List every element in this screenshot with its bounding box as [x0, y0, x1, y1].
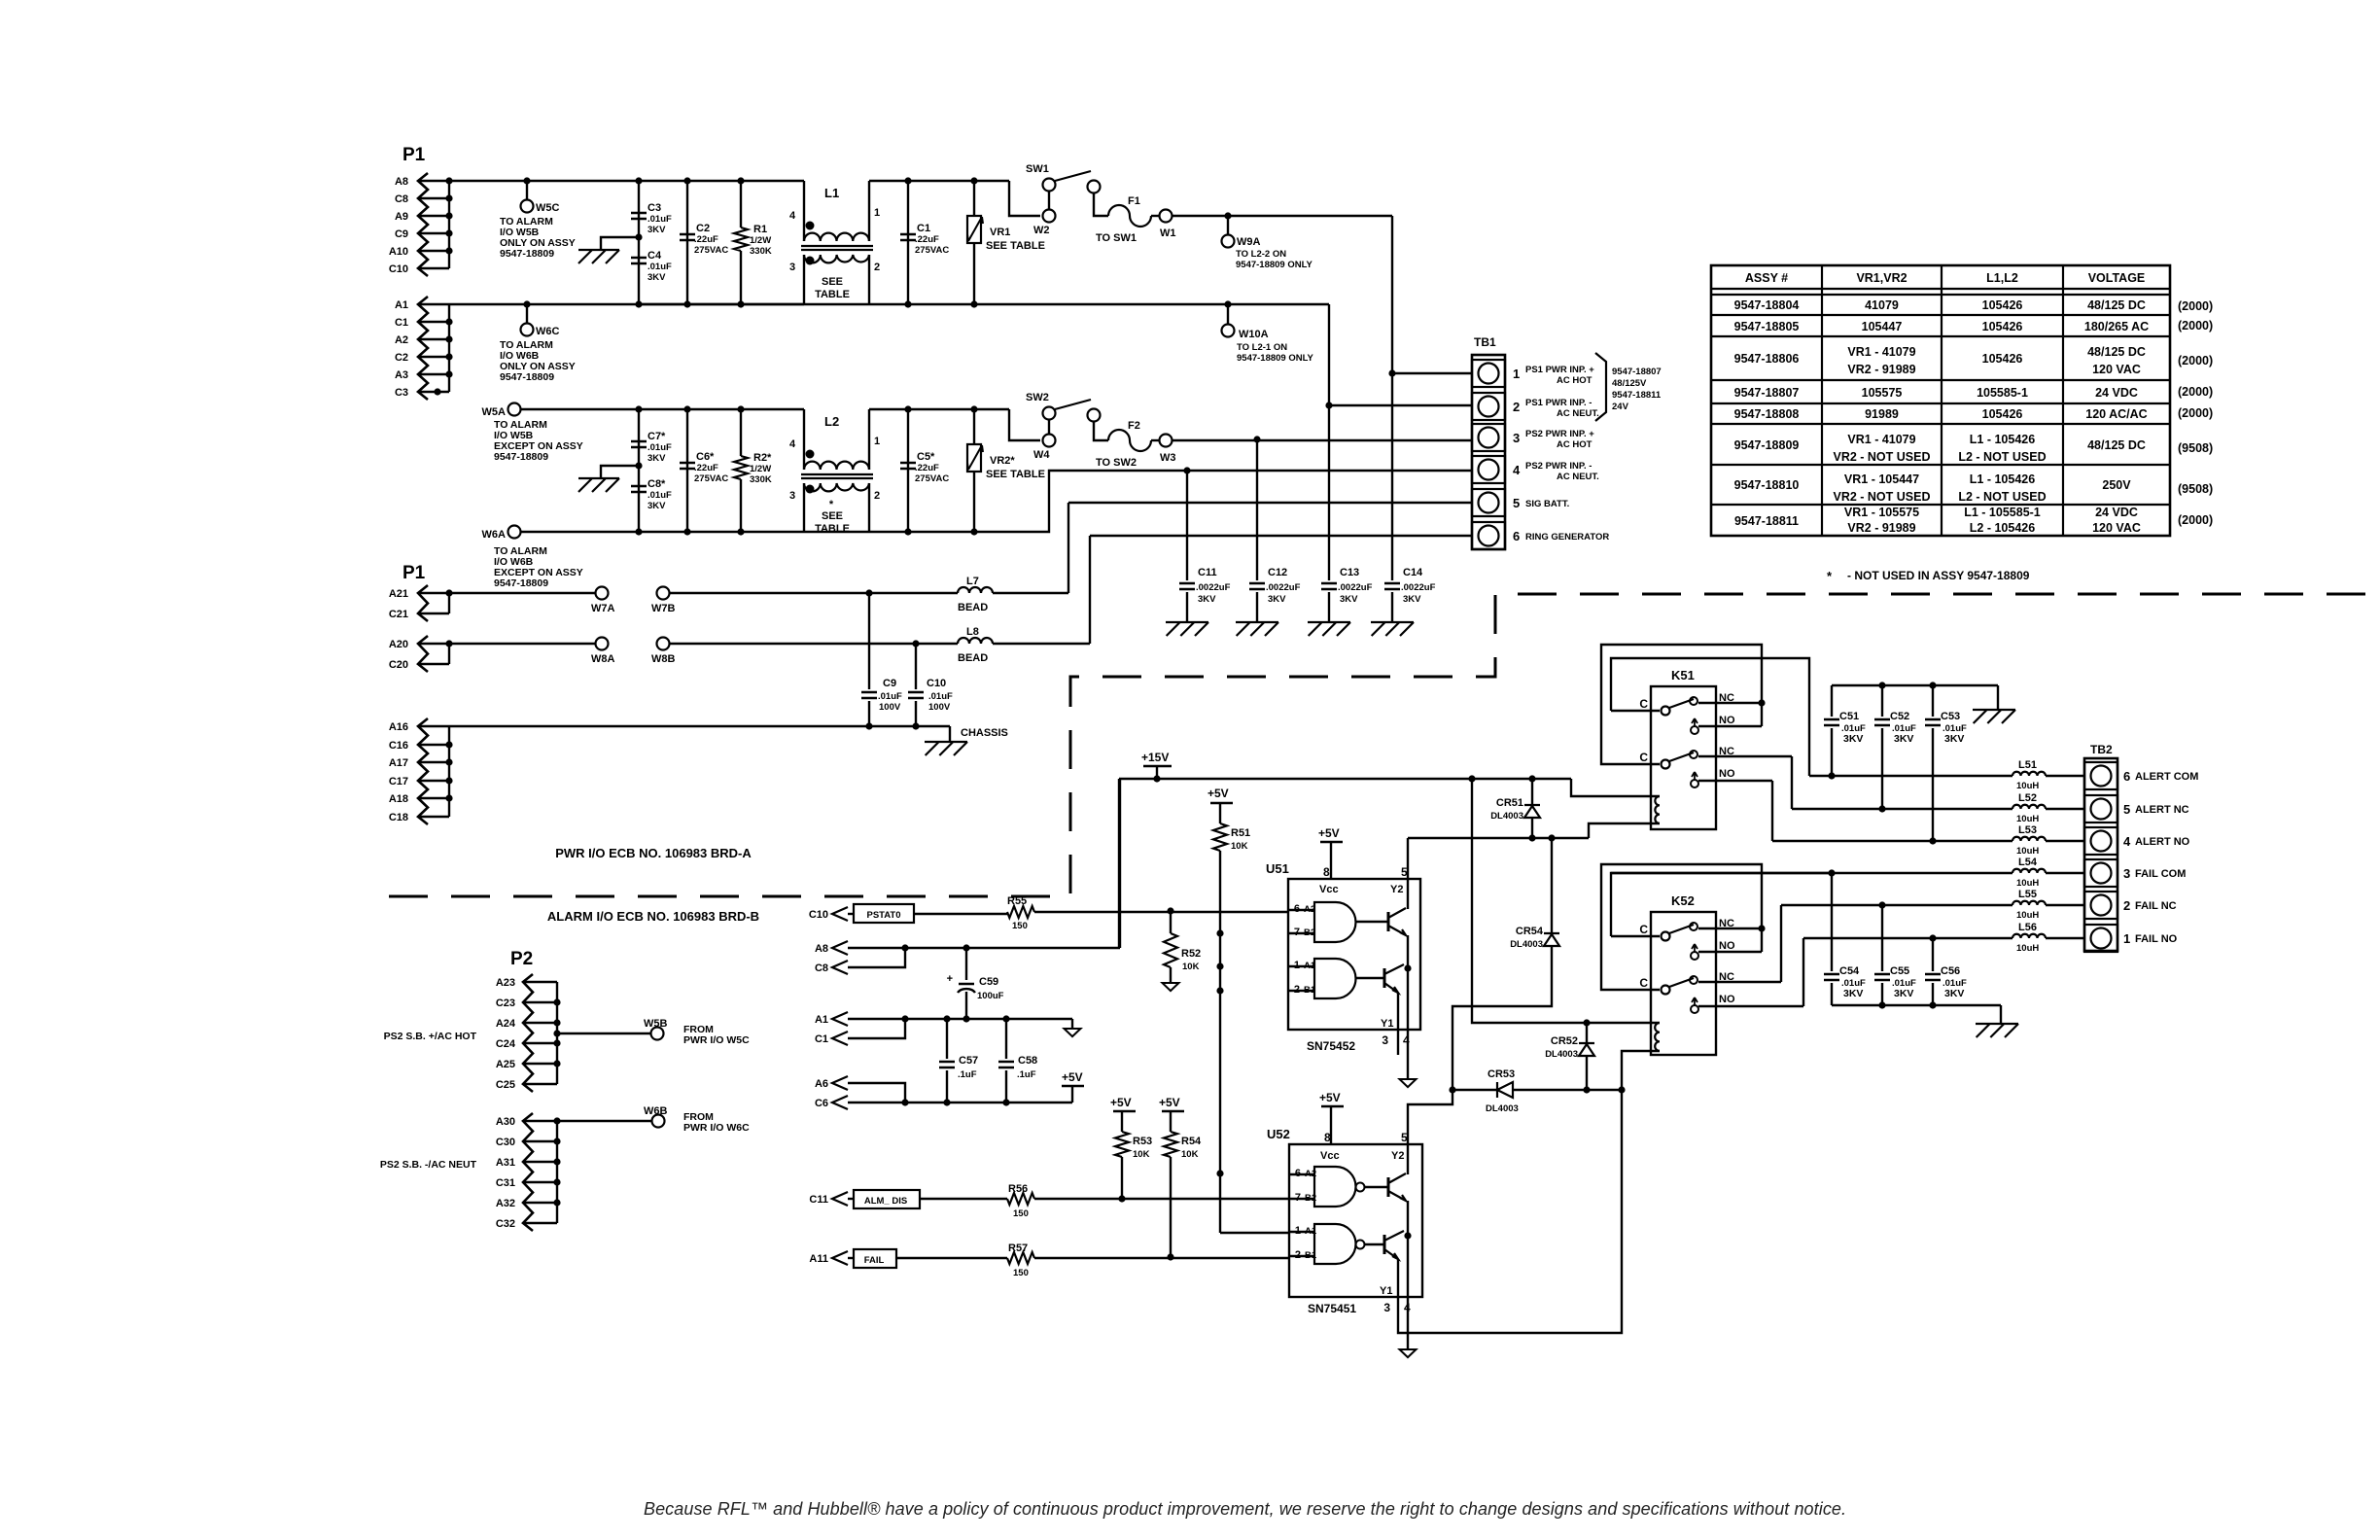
capacitor C3: [638, 181, 640, 304]
svg-text:SW1: SW1: [1026, 163, 1049, 175]
svg-text:330K: 330K: [750, 474, 772, 485]
svg-text:9547-18811: 9547-18811: [1734, 514, 1799, 528]
svg-text:41079: 41079: [1865, 298, 1899, 312]
svg-text:24V: 24V: [1612, 402, 1629, 412]
svg-text:K51: K51: [1671, 668, 1695, 682]
svg-text:5: 5: [2123, 802, 2130, 817]
svg-text:FAIL: FAIL: [864, 1255, 885, 1266]
svg-text:.22uF: .22uF: [694, 463, 718, 473]
K52 pole1 NC contact: [1690, 923, 1697, 930]
svg-text:L1 - 105426: L1 - 105426: [1970, 433, 2035, 446]
svg-text:R1: R1: [753, 224, 767, 235]
jumper W6C: [523, 300, 530, 307]
svg-text:C8: C8: [395, 193, 408, 205]
svg-text:Y1: Y1: [1380, 1285, 1392, 1297]
svg-text:120 AC/AC: 120 AC/AC: [2085, 407, 2147, 421]
wire A1 rail (filter1 bottom): [418, 303, 804, 305]
svg-text:C10: C10: [927, 678, 946, 689]
svg-text:SW2: SW2: [1026, 392, 1049, 403]
svg-text:C8*: C8*: [647, 478, 666, 490]
svg-text:VR1 - 41079: VR1 - 41079: [1847, 345, 1915, 359]
svg-text:L1 - 105585-1: L1 - 105585-1: [1964, 506, 2041, 519]
svg-text:100uF: 100uF: [977, 991, 1004, 1001]
svg-text:P1: P1: [402, 145, 426, 165]
svg-text:VR2*: VR2*: [990, 455, 1015, 467]
svg-text:PWR I/O ECB NO. 106983 BRD-A: PWR I/O ECB NO. 106983 BRD-A: [555, 846, 752, 860]
svg-text:C2: C2: [395, 352, 408, 364]
svg-text:W5A: W5A: [482, 406, 507, 418]
svg-text:R56: R56: [1008, 1183, 1028, 1195]
svg-text:10uH: 10uH: [2016, 781, 2039, 791]
varistor VR1: [973, 181, 975, 216]
svg-text:C1: C1: [395, 317, 408, 329]
wire PSTAT0 to R55: [914, 913, 1007, 915]
svg-text:NO: NO: [1719, 994, 1735, 1005]
svg-text:L2 - NOT USED: L2 - NOT USED: [1958, 450, 2046, 464]
wire K51 pole1 C to ALERT COM row: [1611, 658, 1809, 776]
svg-text:3KV: 3KV: [647, 453, 666, 464]
capacitor C8*: [631, 486, 647, 492]
wire W3 to TB1-3: [1172, 439, 1472, 441]
jumper W5C: [523, 177, 530, 184]
jumper W3: [1160, 435, 1172, 447]
svg-text:NO: NO: [1719, 940, 1735, 952]
svg-text:.01uF: .01uF: [647, 262, 672, 272]
svg-text:+5V: +5V: [1319, 1091, 1341, 1104]
wire to W5B: [553, 1030, 560, 1036]
svg-text:C8: C8: [815, 962, 828, 974]
svg-text:.22uF: .22uF: [915, 463, 939, 473]
svg-text:C9: C9: [883, 678, 896, 689]
svg-text:*: *: [829, 499, 834, 510]
svg-text:9547-18807: 9547-18807: [1734, 386, 1800, 400]
svg-text:DL4003: DL4003: [1510, 939, 1543, 950]
svg-text:275VAC: 275VAC: [694, 245, 728, 256]
svg-text:A17: A17: [389, 757, 408, 769]
svg-text:A3: A3: [395, 369, 408, 381]
K52 pole2 NC contact: [1690, 976, 1697, 984]
svg-text:A20: A20: [389, 639, 408, 650]
svg-text:NO: NO: [1719, 768, 1735, 780]
svg-text:9547-18809 ONLY: 9547-18809 ONLY: [1237, 353, 1314, 364]
jumper W7B: [657, 587, 670, 600]
svg-text:9547-18809: 9547-18809: [500, 371, 554, 383]
capacitor C4: [631, 258, 647, 263]
K51 pole2 NO contact: [1691, 780, 1698, 787]
chassis ground: [601, 237, 639, 250]
svg-text:(2000): (2000): [2178, 354, 2213, 367]
capacitor C58: [1002, 1015, 1009, 1022]
svg-text:U51: U51: [1266, 861, 1289, 876]
svg-text:L2 - 105426: L2 - 105426: [1970, 521, 2035, 535]
inductor L53 10uH: [1772, 840, 2012, 842]
svg-text:Y2: Y2: [1391, 1150, 1404, 1162]
fuse F2: [1094, 421, 1108, 440]
capacitor C59: [965, 948, 967, 980]
wire filter2 bottom to TB1-4: [974, 471, 1472, 532]
svg-text:(2000): (2000): [2178, 513, 2213, 527]
wire K51 NO2 step to ALERT NO: [1771, 781, 1773, 841]
svg-text:PS2 S.B. -/AC NEUT: PS2 S.B. -/AC NEUT: [380, 1159, 477, 1171]
svg-text:10K: 10K: [1133, 1149, 1150, 1160]
wire K51 NC2 step to ALERT NC: [1791, 756, 1793, 809]
svg-text:3KV: 3KV: [1340, 594, 1358, 605]
svg-text:VR1 - 41079: VR1 - 41079: [1847, 433, 1915, 446]
svg-text:10uH: 10uH: [2016, 878, 2039, 889]
svg-text:C: C: [1639, 697, 1648, 711]
svg-text:1: 1: [874, 207, 880, 219]
svg-text:100V: 100V: [879, 702, 901, 713]
svg-text:DL4003: DL4003: [1490, 811, 1523, 822]
svg-text:+: +: [947, 973, 953, 985]
resistor R53: [1115, 1132, 1129, 1157]
svg-text:C55: C55: [1890, 965, 1909, 977]
svg-text:C51: C51: [1839, 711, 1859, 722]
svg-text:(9508): (9508): [2178, 441, 2213, 455]
svg-text:C13: C13: [1340, 567, 1359, 578]
+15V feed to K52 coil: [1472, 779, 1660, 1023]
svg-text:(2000): (2000): [2178, 299, 2213, 313]
wire L8 to TB1-6: [1090, 535, 1472, 537]
svg-text:TO SW2: TO SW2: [1096, 457, 1137, 469]
svg-text:(2000): (2000): [2178, 406, 2213, 420]
svg-text:A6: A6: [815, 1078, 828, 1090]
capacitor C13: [1328, 405, 1330, 580]
svg-text:SN75451: SN75451: [1308, 1302, 1356, 1315]
svg-text:SN75452: SN75452: [1307, 1039, 1355, 1053]
U51 pin3 stub: [1397, 993, 1399, 1055]
board boundary dashed line: [389, 594, 2380, 896]
capacitor C55: [1881, 905, 1883, 971]
svg-text:CR52: CR52: [1551, 1035, 1578, 1047]
svg-text:ALM_ DIS: ALM_ DIS: [864, 1196, 907, 1207]
svg-text:24 VDC: 24 VDC: [2095, 506, 2138, 519]
svg-text:C1: C1: [917, 223, 930, 234]
svg-text:.01uF: .01uF: [647, 442, 672, 453]
inductor L52 10uH: [1792, 808, 2012, 810]
varistor VR2*: [973, 409, 975, 444]
svg-text:1/2W: 1/2W: [750, 235, 771, 246]
svg-text:2: 2: [2123, 898, 2130, 913]
svg-text:PWR I/O W5C: PWR I/O W5C: [683, 1034, 750, 1046]
svg-text:L1 - 105426: L1 - 105426: [1970, 472, 2035, 486]
inductor L55 10uH: [1781, 904, 2012, 906]
svg-text:48/125V: 48/125V: [1612, 378, 1647, 389]
svg-text:L8: L8: [966, 626, 979, 638]
svg-text:FAIL NO: FAIL NO: [2135, 933, 2178, 945]
svg-text:W9A: W9A: [1237, 236, 1261, 248]
svg-text:VR2 - 91989: VR2 - 91989: [1847, 521, 1915, 535]
jumper W5B: [651, 1028, 664, 1040]
svg-text:.01uF: .01uF: [878, 691, 902, 702]
svg-text:VR1,VR2: VR1,VR2: [1856, 271, 1907, 285]
capacitor C52: [1881, 685, 1883, 717]
svg-text:+5V: +5V: [1207, 787, 1229, 800]
svg-text:A8: A8: [395, 176, 408, 188]
svg-text:A31: A31: [496, 1157, 515, 1169]
svg-text:C9: C9: [395, 228, 408, 240]
svg-text:180/265 AC: 180/265 AC: [2084, 320, 2149, 333]
svg-text:L2: L2: [824, 414, 839, 429]
U51 pin4 to ground: [1407, 968, 1409, 1079]
svg-text:4: 4: [789, 210, 796, 222]
svg-text:9547-18809: 9547-18809: [494, 577, 548, 589]
svg-text:NO: NO: [1719, 715, 1735, 726]
capacitor C53: [1932, 685, 1934, 717]
chassis ground: [949, 726, 951, 742]
svg-text:ASSY #: ASSY #: [1745, 271, 1788, 285]
svg-text:.0022uF: .0022uF: [1338, 582, 1373, 593]
svg-text:C10: C10: [389, 263, 408, 275]
svg-text:PS2 PWR INP. -: PS2 PWR INP. -: [1525, 461, 1592, 472]
svg-text:C: C: [1639, 751, 1648, 764]
svg-text:PS2 PWR INP. +: PS2 PWR INP. +: [1525, 429, 1594, 439]
capacitor C6*: [686, 409, 688, 532]
svg-text:.01uF: .01uF: [647, 490, 672, 501]
svg-text:VR2 - 91989: VR2 - 91989: [1847, 363, 1915, 376]
ground: [1163, 983, 1179, 991]
svg-text:W6A: W6A: [482, 529, 507, 541]
svg-text:3KV: 3KV: [647, 225, 666, 235]
capacitor C57: [943, 1015, 950, 1022]
svg-text:.1uF: .1uF: [958, 1069, 977, 1080]
svg-text:2: 2: [1513, 400, 1520, 414]
svg-text:A32: A32: [496, 1198, 515, 1209]
svg-text:SEE TABLE: SEE TABLE: [986, 240, 1045, 252]
svg-text:RING GENERATOR: RING GENERATOR: [1525, 532, 1609, 542]
capacitor C10: [912, 640, 919, 647]
svg-text:3KV: 3KV: [1894, 733, 1913, 745]
jumper W7A: [596, 587, 609, 600]
svg-text:C54: C54: [1839, 965, 1860, 977]
svg-text:P1: P1: [402, 563, 426, 583]
svg-text:Vcc: Vcc: [1319, 884, 1339, 895]
wire A8/C8: [848, 947, 1120, 949]
svg-text:.22uF: .22uF: [694, 234, 718, 245]
svg-text:R51: R51: [1231, 827, 1250, 839]
svg-text:AC HOT: AC HOT: [1557, 439, 1592, 450]
svg-text:48/125 DC: 48/125 DC: [2087, 298, 2146, 312]
svg-text:4: 4: [789, 438, 796, 450]
svg-text:L1: L1: [824, 186, 839, 200]
svg-text:10uH: 10uH: [2016, 846, 2039, 857]
svg-text:L54: L54: [2018, 857, 2038, 868]
net label PSTAT0: [848, 913, 854, 915]
svg-text:3KV: 3KV: [647, 272, 666, 283]
K52 pole1 NO contact: [1691, 952, 1698, 960]
svg-text:10uH: 10uH: [2016, 910, 2039, 921]
transistor Q (U52 upper): [1387, 1177, 1390, 1197]
svg-text:C21: C21: [389, 609, 408, 620]
svg-text:+5V: +5V: [1110, 1096, 1132, 1109]
pull-up bus: [1219, 851, 1221, 1233]
svg-text:2: 2: [874, 262, 880, 273]
svg-text:10K: 10K: [1231, 841, 1248, 852]
svg-text:24 VDC: 24 VDC: [2095, 386, 2138, 400]
capacitor C51: [1831, 685, 1833, 717]
svg-text:6: 6: [1513, 529, 1520, 543]
svg-text:C59: C59: [979, 976, 998, 988]
svg-text:A16: A16: [389, 721, 408, 733]
svg-text:C10: C10: [809, 909, 828, 921]
+15V rail: [1119, 778, 1571, 780]
transistor Q (U51 upper): [1387, 912, 1390, 931]
svg-text:3: 3: [1383, 1301, 1390, 1314]
diode CR51 DL4003: [1531, 779, 1533, 805]
svg-text:4: 4: [1403, 1033, 1410, 1047]
svg-text:U52: U52: [1267, 1127, 1290, 1141]
K52 pole2 NO contact: [1691, 1005, 1698, 1013]
svg-text:C30: C30: [496, 1137, 515, 1148]
wire L7 to TB1-5: [1068, 502, 1472, 504]
svg-text:TO SW1: TO SW1: [1096, 232, 1137, 244]
svg-text:9547-18809: 9547-18809: [1734, 438, 1800, 452]
svg-text:CHASSIS: CHASSIS: [961, 727, 1008, 739]
svg-text:C3: C3: [647, 202, 661, 214]
wire K51 coil to driver row: [1589, 823, 1660, 838]
svg-text:+5V: +5V: [1318, 826, 1340, 840]
U52 pin3 to K52 driver: [1398, 1090, 1622, 1333]
svg-text:C18: C18: [389, 812, 408, 823]
K52 pole1 chain wire: [1601, 864, 1762, 990]
svg-text:9547-18804: 9547-18804: [1734, 298, 1800, 312]
svg-text:C4: C4: [647, 250, 662, 262]
chassis ground: [1371, 622, 1414, 636]
wire filter output step: [908, 180, 1009, 182]
svg-text:A8: A8: [815, 943, 828, 955]
svg-text:9547-18810: 9547-18810: [1734, 478, 1800, 492]
svg-text:W3: W3: [1160, 452, 1176, 464]
svg-text:3: 3: [2123, 866, 2130, 881]
svg-text:91989: 91989: [1865, 407, 1899, 421]
svg-text:C52: C52: [1890, 711, 1909, 722]
K51 pole2 NC contact: [1690, 751, 1697, 758]
svg-text:C: C: [1639, 976, 1648, 990]
ground: [1071, 1019, 1073, 1029]
svg-text:A1: A1: [815, 1014, 828, 1026]
svg-text:1/2W: 1/2W: [750, 464, 771, 474]
svg-text:C32: C32: [496, 1218, 515, 1230]
K51 coil: [1655, 796, 1660, 823]
jumper W8B: [657, 638, 670, 650]
svg-text:PSTAT0: PSTAT0: [866, 910, 900, 921]
svg-text:W5B: W5B: [644, 1018, 668, 1030]
svg-text:R53: R53: [1133, 1136, 1152, 1147]
svg-text:DL4003: DL4003: [1545, 1049, 1578, 1060]
svg-text:R52: R52: [1181, 948, 1201, 960]
svg-text:W4: W4: [1033, 449, 1050, 461]
svg-text:C16: C16: [389, 740, 408, 752]
svg-text:ALERT NC: ALERT NC: [2135, 804, 2189, 816]
resistor R52: [1170, 911, 1172, 933]
svg-text:9547-18809 ONLY: 9547-18809 ONLY: [1236, 260, 1313, 270]
svg-text:TB2: TB2: [2090, 743, 2113, 756]
wire K52 NC2 step to FAIL NC: [1780, 905, 1782, 982]
capacitor C2: [686, 181, 688, 304]
net label FAIL: [848, 1257, 854, 1259]
svg-text:SEE: SEE: [822, 510, 843, 522]
svg-text:105426: 105426: [1982, 320, 2023, 333]
svg-text:ALERT NO: ALERT NO: [2135, 836, 2190, 848]
svg-text:275VAC: 275VAC: [915, 473, 949, 484]
svg-text:3KV: 3KV: [647, 501, 666, 511]
wire K52 coil leads: [1622, 1051, 1660, 1090]
svg-text:9547-18811: 9547-18811: [1612, 390, 1662, 401]
svg-text:A11: A11: [809, 1253, 828, 1265]
svg-text:150: 150: [1013, 1208, 1029, 1219]
svg-text:W8B: W8B: [651, 653, 676, 665]
svg-text:9547-18808: 9547-18808: [1734, 407, 1800, 421]
svg-text:K52: K52: [1671, 893, 1695, 908]
svg-text:C31: C31: [496, 1177, 515, 1189]
svg-text:W6B: W6B: [644, 1105, 668, 1117]
svg-text:- NOT USED IN ASSY 9547-18809: - NOT USED IN ASSY 9547-18809: [1847, 569, 2030, 582]
jumper W8A: [596, 638, 609, 650]
svg-text:VR1: VR1: [990, 227, 1010, 238]
svg-text:C23: C23: [496, 997, 515, 1009]
svg-text:3KV: 3KV: [1894, 988, 1913, 999]
svg-text:PWR I/O W6C: PWR I/O W6C: [683, 1122, 750, 1134]
svg-text:48/125 DC: 48/125 DC: [2087, 438, 2146, 452]
resistor R2*: [740, 409, 742, 456]
svg-text:W5C: W5C: [536, 202, 560, 214]
wire top rail down to TB1-1: [1391, 216, 1393, 373]
wire A8 top rail: [418, 180, 804, 182]
svg-text:+15V: +15V: [1141, 751, 1169, 764]
U51 pin5 to +15V / K51 coil driver: [1407, 838, 1409, 879]
jumper W6B: [557, 1120, 651, 1122]
svg-text:P2: P2: [510, 949, 533, 969]
svg-text:C12: C12: [1268, 567, 1287, 578]
parts table: [1711, 265, 2170, 536]
svg-text:L7: L7: [966, 576, 979, 587]
resistor R1: [740, 181, 742, 227]
diode CR54 DL4003: [1551, 838, 1553, 933]
K51 pole1 NC contact: [1690, 697, 1697, 705]
svg-text:(2000): (2000): [2178, 385, 2213, 399]
svg-text:+5V: +5V: [1062, 1070, 1083, 1084]
svg-text:VR1 - 105575: VR1 - 105575: [1844, 506, 1919, 519]
svg-text:10K: 10K: [1182, 962, 1200, 972]
svg-text:AC NEUT.: AC NEUT.: [1557, 472, 1599, 482]
svg-text:C53: C53: [1941, 711, 1960, 722]
svg-text:Because RFL™ and Hubbell® have: Because RFL™ and Hubbell® have a policy …: [644, 1499, 1846, 1519]
svg-text:TO L2-2 ON: TO L2-2 ON: [1236, 249, 1286, 260]
svg-text:VR2 - NOT USED: VR2 - NOT USED: [1833, 450, 1930, 464]
svg-text:A24: A24: [496, 1018, 516, 1030]
svg-text:105575: 105575: [1862, 386, 1903, 400]
svg-text:C5*: C5*: [917, 451, 935, 463]
K51 pole1 NO contact: [1691, 726, 1698, 734]
svg-text:3KV: 3KV: [1944, 733, 1964, 745]
capacitor C11: [1186, 471, 1188, 580]
svg-text:105447: 105447: [1862, 320, 1903, 333]
capacitor C7*: [638, 409, 640, 532]
svg-text:6: 6: [2123, 769, 2130, 784]
svg-text:ALERT COM: ALERT COM: [2135, 771, 2198, 783]
svg-text:10K: 10K: [1181, 1149, 1199, 1160]
capacitor C54: [1828, 869, 1835, 876]
svg-text:C56: C56: [1941, 965, 1960, 977]
svg-text:10uH: 10uH: [2016, 943, 2039, 954]
svg-text:BEAD: BEAD: [958, 602, 988, 613]
svg-text:R57: R57: [1008, 1242, 1028, 1254]
svg-text:4: 4: [2123, 834, 2131, 849]
svg-text:Y2: Y2: [1390, 884, 1403, 895]
svg-text:(9508): (9508): [2178, 482, 2213, 496]
wire K52 NO2 step to FAIL NO: [1802, 938, 1804, 1006]
wire +15V to K51 coil: [1571, 779, 1660, 796]
